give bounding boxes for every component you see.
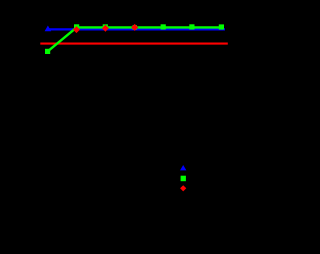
green square marker 1	[45, 49, 50, 54]
blue triangle marker 1	[45, 26, 52, 32]
green curve line	[48, 27, 222, 51]
red diamond marker 1	[73, 26, 80, 33]
legend square (green)	[181, 176, 186, 182]
green square marker 2	[74, 24, 79, 29]
red diamond marker 2	[102, 25, 109, 32]
green square marker 6	[189, 24, 194, 29]
legend triangle (blue)	[180, 165, 186, 170]
green square marker 7	[219, 24, 224, 29]
red diamond marker 3	[131, 24, 138, 31]
legend diamond (red)	[180, 185, 186, 191]
green square marker 4	[132, 25, 137, 30]
blue curve line	[48, 28, 225, 30]
green square marker 5	[161, 24, 166, 29]
red threshold line	[40, 43, 228, 45]
green square marker 3	[103, 24, 108, 29]
